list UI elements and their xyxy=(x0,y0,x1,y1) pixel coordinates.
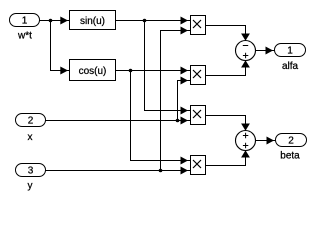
wire y branch up to M1 lower xyxy=(161,31,191,171)
outport 2 xyxy=(276,134,307,147)
arrow into M1 lower xyxy=(181,27,189,35)
svg-text:2: 2 xyxy=(28,116,34,127)
sum block sum2 xyxy=(236,131,256,151)
arrow into sum2 top xyxy=(241,124,250,131)
wire port1 to sin xyxy=(40,20,70,22)
svg-text:beta: beta xyxy=(280,151,300,162)
arrow into cos xyxy=(60,67,68,75)
arrow into M1 upper xyxy=(181,17,189,25)
arrow into sin xyxy=(60,17,68,25)
svg-text:3: 3 xyxy=(28,166,34,177)
junction wt xyxy=(49,19,53,23)
arrow into sum1 top xyxy=(241,34,250,41)
svg-text:y: y xyxy=(28,181,33,192)
svg-text:2: 2 xyxy=(288,136,294,147)
junction y branch xyxy=(159,169,163,173)
wire sin branch down to M3 upper xyxy=(145,21,191,111)
product block M3 xyxy=(191,106,206,125)
arrow into sum1 bottom xyxy=(241,60,250,67)
product block M1 xyxy=(191,16,206,35)
wire M3 out to sum2 top xyxy=(206,116,246,131)
arrow into M3 lower xyxy=(181,117,189,125)
product block M2 xyxy=(191,66,206,85)
sum block sum1 xyxy=(236,41,256,61)
junction sin branch xyxy=(143,19,147,23)
inport 1 xyxy=(10,14,40,27)
wire M1 out to sum1 top xyxy=(206,26,246,41)
arrow into M4 upper xyxy=(181,157,189,165)
wire y to M4 lower xyxy=(46,170,191,172)
inport 2 xyxy=(16,114,46,127)
arrow into outport2 xyxy=(267,137,275,145)
fcn block sin(u) xyxy=(70,11,116,30)
wire cos branch down to M4 upper xyxy=(131,71,191,161)
svg-text:alfa: alfa xyxy=(282,61,299,72)
fcn block cos(u) xyxy=(70,60,116,81)
product block M4 xyxy=(191,156,206,175)
wire M4 out to sum2 bottom xyxy=(206,151,246,166)
wire sum2 out to outport2 xyxy=(256,140,276,142)
wire x to M3 lower xyxy=(46,120,191,122)
arrow into outport1 xyxy=(266,47,274,55)
wire sum1 out to outport1 xyxy=(256,50,275,52)
svg-text:w*t: w*t xyxy=(17,31,32,42)
wire cos out to M2 upper xyxy=(116,70,191,72)
junction cos branch xyxy=(129,69,133,73)
wire sin out to M1 upper xyxy=(116,20,191,22)
arrow into sum2 bottom xyxy=(241,150,250,157)
wire junction down to cos xyxy=(51,21,70,71)
wire M2 out to sum1 bottom xyxy=(206,61,246,76)
svg-text:1: 1 xyxy=(22,16,28,27)
junction x branch xyxy=(176,119,180,123)
arrow into M3 upper xyxy=(181,107,189,115)
arrow into M4 lower xyxy=(181,167,189,175)
inport 3 xyxy=(16,164,46,177)
svg-text:x: x xyxy=(28,132,33,143)
svg-text:sin(u): sin(u) xyxy=(80,16,105,27)
arrow into M2 upper xyxy=(181,67,189,75)
arrow into M2 lower xyxy=(181,77,189,85)
wire x branch up to M2 lower xyxy=(178,81,191,121)
svg-text:1: 1 xyxy=(287,46,293,57)
outport 1 xyxy=(275,44,306,57)
svg-text:cos(u): cos(u) xyxy=(79,66,107,77)
